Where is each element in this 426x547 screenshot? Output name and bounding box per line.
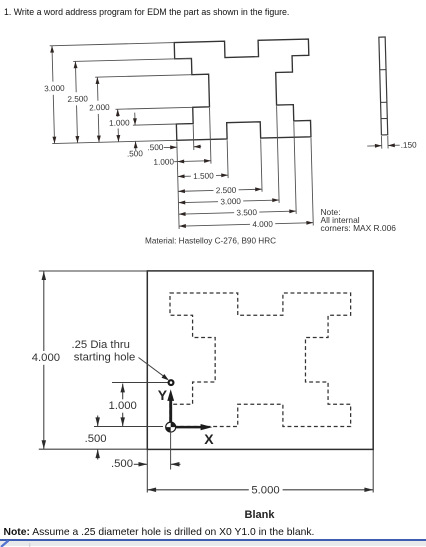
svg-text:.500: .500	[147, 143, 164, 152]
svg-text:starting hole: starting hole	[74, 351, 136, 363]
svg-text:.500: .500	[111, 458, 133, 470]
svg-text:4.000: 4.000	[32, 352, 60, 364]
svg-text:3.500: 3.500	[236, 208, 257, 218]
svg-text:2.000: 2.000	[89, 103, 110, 113]
svg-text:1.500: 1.500	[193, 171, 214, 181]
svg-text:Material: Hastelloy C-276, B90: Material: Hastelloy C-276, B90 HRC	[145, 237, 276, 246]
svg-text:1.000: 1.000	[109, 118, 130, 128]
svg-text:4.000: 4.000	[252, 220, 273, 230]
svg-text:2.500: 2.500	[216, 186, 237, 196]
svg-text:.25 Dia thru: .25 Dia thru	[72, 339, 130, 351]
svg-text:2.500: 2.500	[67, 94, 88, 104]
svg-text:3.000: 3.000	[44, 84, 65, 94]
svg-text:3.000: 3.000	[220, 197, 241, 207]
svg-text:1.000: 1.000	[109, 400, 137, 412]
svg-text:Blank: Blank	[245, 509, 276, 521]
svg-text:5.000: 5.000	[251, 485, 279, 497]
svg-text:.500: .500	[85, 433, 107, 445]
svg-text:Y: Y	[158, 387, 168, 403]
svg-text:X: X	[204, 431, 214, 447]
svg-text:1.000: 1.000	[153, 157, 174, 167]
svg-text:.150: .150	[401, 141, 418, 150]
svg-text:corners: MAX R.006: corners: MAX R.006	[321, 223, 397, 233]
svg-text:.500: .500	[127, 149, 144, 158]
